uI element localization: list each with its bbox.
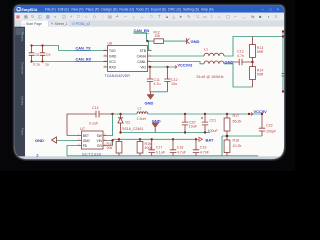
- svg-text:▭: ▭: [203, 14, 207, 19]
- resistor R17: [226, 114, 228, 118]
- window shadow glow: [15, 6, 285, 160]
- svg-text:R18: R18: [233, 139, 240, 143]
- svg-text:CAN_TX: CAN_TX: [76, 46, 92, 50]
- svg-text:CAN_RX: CAN_RX: [76, 57, 92, 61]
- svg-text:10uF: 10uF: [189, 125, 198, 129]
- resistor R16: [139, 139, 141, 141]
- wire BAT rail: [113, 138, 197, 140]
- wire STB up to CAN_EN: [148, 41, 149, 50]
- svg-text:GND: GND: [225, 60, 234, 65]
- node VCC5V flag: [249, 112, 253, 115]
- svg-text:4.7u: 4.7u: [154, 82, 161, 86]
- svg-text:100uF: 100uF: [208, 129, 219, 133]
- title bar: [15, 6, 285, 13]
- svg-text:FB: FB: [83, 144, 87, 148]
- svg-text:□: □: [270, 7, 272, 11]
- svg-text:C21: C21: [210, 119, 217, 123]
- resistor R13: [252, 37, 254, 63]
- svg-text:VIN: VIN: [96, 139, 102, 143]
- wire choke top out, up and right: [224, 37, 283, 57]
- svg-text:51uH @ 100kHz: 51uH @ 100kHz: [197, 75, 224, 79]
- diode D2 schottky: [120, 114, 122, 133]
- svg-text:10k: 10k: [155, 34, 161, 38]
- svg-text:0.1u: 0.1u: [33, 62, 40, 66]
- svg-text:VIO: VIO: [140, 65, 146, 69]
- svg-text:C22: C22: [266, 123, 273, 127]
- svg-text:GND: GND: [145, 101, 154, 106]
- capacitor C11: [149, 67, 151, 92]
- svg-text:GND: GND: [109, 54, 117, 58]
- node junction mid termination: [251, 61, 253, 63]
- svg-text:VCC: VCC: [109, 60, 117, 64]
- capacitor clipped at right edge: [282, 74, 286, 77]
- svg-text:◫: ◫: [38, 14, 42, 19]
- svg-text:SW: SW: [97, 134, 102, 138]
- inductor L1 common-mode choke: [204, 53, 224, 64]
- svg-text:C18: C18: [177, 146, 184, 150]
- wire VIO / VCC rail: [152, 66, 174, 68]
- node BAT port: [196, 137, 203, 141]
- svg-text:┵: ┵: [115, 14, 119, 19]
- canvas background: [15, 6, 285, 160]
- wire GND port to U7: [57, 140, 78, 142]
- wire CAN_EN: [134, 33, 155, 41]
- resistor R18: [224, 140, 230, 153]
- svg-text:U7: U7: [80, 127, 85, 131]
- svg-text:▧: ▧: [46, 14, 50, 19]
- svg-text:D2: D2: [126, 121, 131, 125]
- svg-text:C8: C8: [35, 53, 40, 57]
- capacitor C22: [261, 114, 263, 136]
- svg-text:GND: GND: [152, 118, 161, 123]
- svg-text:⌂ Start Page: ⌂ Start Page: [23, 22, 42, 26]
- svg-text:⋮: ⋮: [101, 14, 105, 19]
- wire switch node: [113, 113, 138, 115]
- capacitor C14 bootstrap: [67, 114, 113, 136]
- resistor R14: [252, 62, 254, 87]
- svg-text:C19: C19: [200, 146, 207, 150]
- capacitor C20: [184, 114, 186, 133]
- svg-text:◲: ◲: [62, 14, 66, 19]
- svg-text:⌥: ⌥: [195, 14, 200, 19]
- node junction STB/CAN_EN: [146, 40, 148, 42]
- svg-text:▢: ▢: [226, 14, 230, 19]
- wire output rail: [148, 113, 263, 115]
- svg-text:4.7nF: 4.7nF: [200, 150, 210, 154]
- svg-text:56.2k: 56.2k: [233, 120, 242, 124]
- wire bottom rail: [67, 155, 258, 157]
- wire VIN/EN tie: [107, 139, 113, 145]
- svg-text:–: –: [262, 7, 264, 11]
- wire right edge vertical: [282, 31, 284, 92]
- svg-text:↻: ↻: [31, 14, 34, 19]
- transistor U7 regulator SCT2330: [78, 131, 108, 149]
- capacitor C12: [167, 67, 169, 92]
- svg-text:▩: ▩: [24, 14, 28, 19]
- wire choke bottom out, down to lower rail: [224, 64, 253, 87]
- resistor R15: [118, 139, 120, 141]
- svg-text:↹: ↹: [251, 14, 255, 19]
- resistor R12: [154, 39, 164, 44]
- svg-text:4.7n: 4.7n: [237, 54, 244, 58]
- capacitor C19: [195, 139, 197, 156]
- wire CANH: [152, 55, 205, 57]
- svg-text:4.7uF: 4.7uF: [177, 150, 187, 154]
- svg-text:100pF: 100pF: [266, 129, 277, 133]
- svg-text:CANH: CANH: [137, 54, 147, 58]
- wire CANL: [152, 62, 205, 64]
- svg-text:59R: 59R: [257, 50, 264, 54]
- svg-text:L2: L2: [138, 106, 142, 110]
- svg-text:➤: ➤: [179, 14, 183, 19]
- node junction caps: [30, 44, 32, 46]
- svg-text:SS16_C2481: SS16_C2481: [122, 127, 143, 131]
- svg-text:0.1uF: 0.1uF: [89, 122, 99, 126]
- node VCC3V3 flag: [173, 65, 177, 68]
- svg-text:↔: ↔: [140, 14, 144, 19]
- svg-text:▦: ▦: [16, 14, 20, 19]
- svg-text:L1: L1: [204, 48, 208, 52]
- svg-text:C14: C14: [92, 106, 99, 110]
- capacitor C9: [40, 46, 46, 62]
- svg-text:⌕: ⌕: [54, 14, 56, 19]
- svg-text:59R: 59R: [257, 73, 264, 77]
- left sidebar: [15, 27, 26, 157]
- capacitor C21 polarized: [204, 114, 206, 133]
- svg-text:GND: GND: [191, 39, 200, 44]
- svg-text:STB: STB: [140, 49, 147, 53]
- svg-text:Library: Library: [21, 96, 25, 106]
- svg-text:R17: R17: [233, 114, 240, 118]
- svg-text:EN: EN: [97, 144, 102, 148]
- svg-text:TXD: TXD: [109, 49, 116, 53]
- svg-text:↺ PCB1_v2: ↺ PCB1_v2: [72, 22, 90, 26]
- svg-text:10u: 10u: [171, 82, 177, 86]
- svg-text:VCC3V3: VCC3V3: [178, 63, 193, 67]
- capacitor C18: [172, 139, 174, 156]
- svg-text:BST: BST: [83, 134, 89, 138]
- svg-text:EasyEDA: EasyEDA: [22, 8, 38, 12]
- svg-text:Project: Project: [21, 32, 25, 42]
- wire CAN_TX: [59, 50, 108, 52]
- toolbar: [15, 13, 285, 21]
- wire FB to bottom rail: [67, 146, 78, 156]
- svg-text:1.5uH: 1.5uH: [137, 117, 147, 121]
- svg-text:▲: ▲: [165, 14, 169, 19]
- wire SW up to switch node: [107, 114, 113, 136]
- svg-text:RXD: RXD: [109, 65, 117, 69]
- svg-text:0.1uF: 0.1uF: [156, 150, 166, 154]
- svg-text:1u: 1u: [45, 62, 49, 66]
- capacitor C8: [29, 46, 35, 62]
- svg-text:×: ×: [277, 7, 279, 11]
- svg-text:GND: GND: [83, 139, 91, 143]
- svg-text:Parts: Parts: [21, 128, 25, 136]
- wire R12 to GND flag: [164, 40, 187, 42]
- svg-text:U8: U8: [108, 41, 113, 45]
- svg-text:C17: C17: [156, 146, 163, 150]
- svg-text:─: ─: [233, 14, 237, 19]
- svg-text:CAN_EN: CAN_EN: [134, 29, 150, 33]
- ground symbol below caps: [150, 92, 152, 95]
- svg-text:File (F) Edit (E) View (V): File (F) Edit (E) View (V) Place (P) Des…: [45, 8, 214, 12]
- svg-text:✎: ✎: [187, 14, 190, 19]
- wire GND mid rail: [121, 132, 211, 134]
- svg-text:─: ─: [123, 14, 127, 19]
- svg-text:20k: 20k: [107, 146, 113, 150]
- inductor L2: [137, 112, 148, 114]
- node junctions on VIO rail: [149, 66, 151, 68]
- svg-text:✎ Sheet_1: ✎ Sheet_1: [51, 22, 68, 26]
- ground flag (net port) after R12: [187, 38, 190, 44]
- status bar: [15, 156, 285, 161]
- svg-text:BAT: BAT: [206, 138, 214, 143]
- capacitor C17: [151, 139, 153, 156]
- wire bottom rail caps to U8 GND: [32, 61, 108, 63]
- svg-text:GND: GND: [35, 138, 44, 143]
- svg-text:Common: Common: [21, 62, 25, 75]
- wire top rail caps: [32, 46, 59, 51]
- ground symbol mid rail: [154, 128, 156, 133]
- svg-text:CANL: CANL: [137, 60, 146, 64]
- svg-text:C9: C9: [46, 53, 51, 57]
- wire caps bottom: [150, 91, 168, 93]
- svg-text:◡: ◡: [242, 14, 246, 19]
- svg-text:10.2k: 10.2k: [233, 144, 242, 148]
- op-amp U8 TCAN1042 transceiver: [104, 46, 152, 72]
- svg-text:▤: ▤: [108, 14, 112, 19]
- wire FB node: [222, 136, 262, 156]
- capacitor C13: [233, 61, 253, 63]
- tab bar: [15, 20, 285, 26]
- svg-text:TCAN1042VDR: TCAN1042VDR: [105, 74, 131, 78]
- svg-text:VCC5V: VCC5V: [254, 109, 268, 114]
